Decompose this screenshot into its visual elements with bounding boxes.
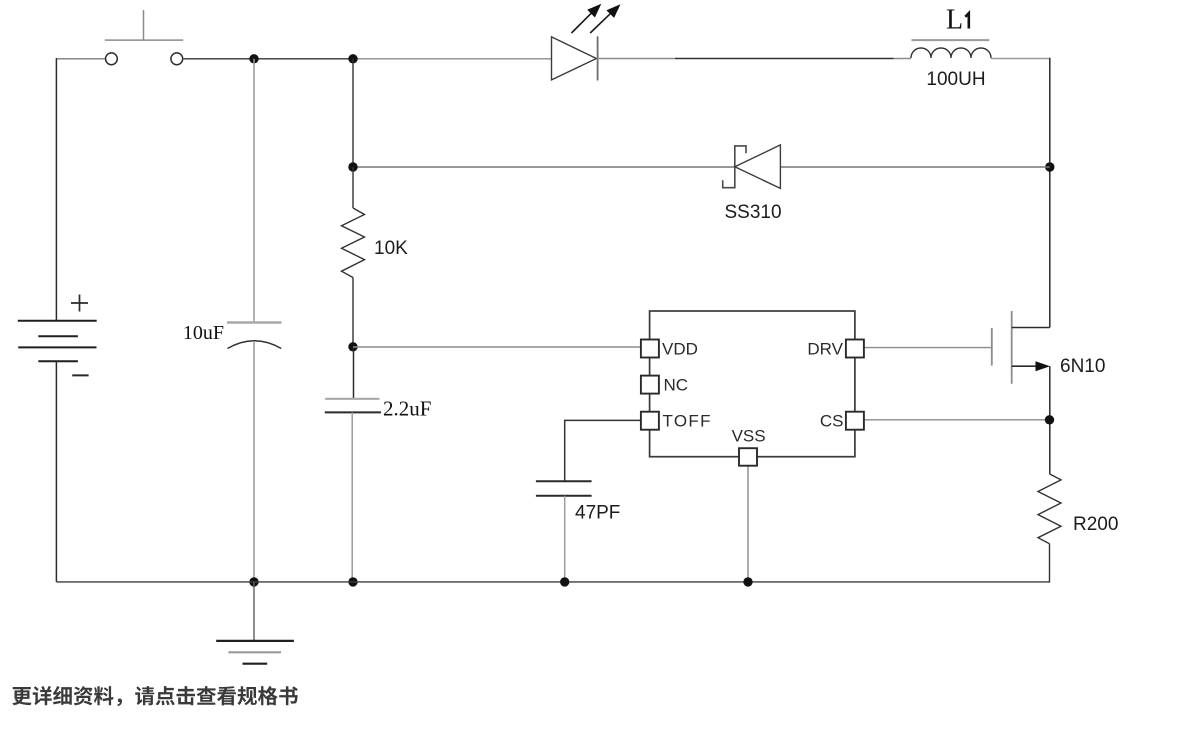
MOSFET Q1 source arrow head xyxy=(1036,361,1051,371)
battery BT1 plate 1 long xyxy=(18,320,97,322)
svg-text:TOFF: TOFF xyxy=(663,412,712,431)
svg-text:2.2uF: 2.2uF xyxy=(383,397,431,421)
svg-text:VSS: VSS xyxy=(732,427,766,446)
ground symbol line 2 xyxy=(228,651,281,653)
svg-text:R200: R200 xyxy=(1073,514,1118,535)
node: 2.2uF branch / bottom rail xyxy=(348,577,357,586)
wire VDD node down to 2.2uF xyxy=(353,347,355,399)
diode D2 SS310 schottky cathode bar with hooks xyxy=(723,146,746,188)
battery plus sign xyxy=(71,295,88,312)
node: CS / source xyxy=(1045,415,1054,424)
node: VDD tee xyxy=(348,342,357,351)
switch S1 stem xyxy=(143,10,145,40)
node: VSS / bottom rail xyxy=(743,577,752,586)
capacitor C3 47PF top plate xyxy=(536,480,592,482)
ground symbol line 1 xyxy=(216,640,294,642)
wire ground stem xyxy=(253,582,255,641)
node: 10K branch / SS310 row xyxy=(348,162,357,171)
svg-text:NC: NC xyxy=(664,376,689,395)
MOSFET Q1 drain lead xyxy=(1012,327,1050,329)
LED D1 triangle xyxy=(552,37,597,80)
svg-text:100UH: 100UH xyxy=(926,69,985,90)
svg-text:47PF: 47PF xyxy=(575,503,620,524)
IC U1 pin VSS xyxy=(739,448,757,466)
wire battery positive vertical xyxy=(55,58,57,321)
svg-text:10K: 10K xyxy=(374,238,408,259)
svg-text:6N10: 6N10 xyxy=(1060,356,1105,377)
wire battery negative to bottom rail xyxy=(55,361,57,582)
inductor L1 core bar xyxy=(912,39,990,41)
diode D2 SS310 triangle xyxy=(735,145,781,189)
wire 10uF to bottom rail xyxy=(253,341,255,582)
node: top rail / 10K branch xyxy=(348,54,357,63)
wire TOFF pin to 47PF xyxy=(565,420,641,481)
IC U1 pin TOFF xyxy=(641,412,659,430)
svg-text:10uF: 10uF xyxy=(183,322,224,344)
MOSFET Q1 gate bar xyxy=(991,328,993,366)
MOSFET Q1 source lead xyxy=(1012,365,1040,367)
LED D1 light arrow 2 shaft xyxy=(590,14,610,33)
svg-text:DRV: DRV xyxy=(807,340,843,359)
IC U1 pin CS xyxy=(846,412,864,430)
wire CS pin to source node xyxy=(864,419,1049,421)
battery BT1 plate 3 long xyxy=(18,346,96,348)
wire SS310 row left segment xyxy=(353,166,735,168)
battery BT1 plate 4 short xyxy=(38,360,78,362)
battery BT1 plate 2 short xyxy=(38,335,78,337)
resistor R2 R200 zigzag xyxy=(1038,474,1061,544)
wire inductor to top-right corner and down to drain xyxy=(991,58,1049,60)
wire right vertical: top corner down to drain xyxy=(1049,58,1051,328)
wire DRV pin to MOSFET gate xyxy=(864,347,992,349)
node: right vertical / SS310 xyxy=(1045,162,1054,171)
wire source down through CS node to R200 xyxy=(1049,366,1051,474)
wire SS310 row right segment xyxy=(780,166,1049,168)
caption text 更详细资料，请点击查看规格书 xyxy=(12,686,298,706)
wire switch to LED (top rail) xyxy=(184,58,353,60)
bottom ground rail xyxy=(56,581,1049,583)
capacitor C3 47PF bottom plate xyxy=(536,495,592,497)
wire 10uF branch from top rail xyxy=(253,59,255,323)
LED D1 light arrow 1 shaft xyxy=(572,13,592,33)
wire VDD node to VDD pin xyxy=(353,346,641,348)
LED D1 cathode bar xyxy=(597,36,599,80)
IC U1 pin DRV xyxy=(846,340,864,358)
switch S1 right contact circle xyxy=(171,53,183,65)
capacitor C1 10uF curved bottom plate xyxy=(228,341,282,349)
wire 10K branch: top rail down to SS310 row xyxy=(352,59,354,167)
battery minus sign xyxy=(72,374,88,376)
svg-text:SS310: SS310 xyxy=(724,202,781,223)
svg-text:CS: CS xyxy=(820,412,844,431)
capacitor C2 2.2uF top plate xyxy=(325,398,379,400)
LED D1 light arrow 1 head xyxy=(587,4,601,18)
switch S1 push-button actuator bar xyxy=(105,39,183,41)
svg-text:L: L xyxy=(946,5,963,36)
IC U1 body xyxy=(650,311,855,457)
wire VSS pin to bottom rail xyxy=(747,466,749,582)
node: top rail / 10uF branch xyxy=(249,54,258,63)
LED D1 light arrow 2 head xyxy=(606,4,620,18)
wire top-left from battery to switch xyxy=(56,58,105,60)
wire 47PF to bottom rail xyxy=(564,496,566,582)
IC U1 pin VDD xyxy=(641,340,659,358)
resistor R1 10K zigzag xyxy=(342,208,365,278)
svg-text:VDD: VDD xyxy=(662,340,698,359)
switch S1 left contact circle xyxy=(106,53,118,65)
wire R200 to bottom rail corner xyxy=(1049,544,1051,583)
wire SS310 node down to resistor xyxy=(352,167,354,208)
node: 47PF / bottom rail xyxy=(560,577,569,586)
wire LED to inductor xyxy=(598,58,675,60)
MOSFET Q1 channel bar xyxy=(1011,311,1013,384)
ground symbol line 3 xyxy=(243,663,268,665)
inductor L1 coil xyxy=(911,48,991,58)
node: 10uF branch / bottom rail (ground tee) xyxy=(249,577,258,586)
capacitor C2 2.2uF bottom plate xyxy=(325,411,381,413)
wire 2.2uF to bottom rail xyxy=(351,412,353,582)
capacitor C1 10uF top plate xyxy=(227,321,282,323)
IC U1 pin NC xyxy=(641,376,659,394)
wire resistor to VDD node xyxy=(352,278,354,347)
